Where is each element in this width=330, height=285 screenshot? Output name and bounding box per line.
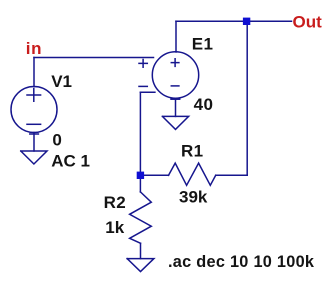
V1 circle body: [11, 87, 57, 133]
VCVS E1: [139, 52, 199, 99]
E1 bottom pin tick: [171, 98, 180, 100]
svg-text:40: 40: [194, 95, 214, 114]
E1 internal minus mark: [171, 85, 179, 87]
wire: node in down to V1 top: [33, 58, 35, 87]
ground (below E1): [162, 116, 188, 129]
resistor R2 (vertical zigzag): [130, 192, 152, 243]
V1 bottom pin tick: [30, 133, 39, 135]
resistor R1 (horizontal zigzag): [169, 163, 216, 185]
svg-text:1k: 1k: [105, 218, 124, 237]
svg-text:Out: Out: [293, 13, 323, 32]
E1 internal plus mark: [171, 59, 179, 67]
wire: E1 control - down to feedback node: [139, 92, 141, 171]
svg-text:0: 0: [52, 131, 61, 150]
svg-text:39k: 39k: [179, 187, 208, 206]
E1 control minus mark: [139, 85, 147, 87]
wire: E1 top pin up to out rail: [175, 21, 177, 52]
E1 circle body: [152, 52, 198, 98]
ground (below R2): [127, 259, 154, 272]
wire: top rail E1 to Out node: [176, 20, 247, 22]
svg-text:V1: V1: [51, 72, 72, 91]
wire: right rail Out node down to R1: [246, 21, 248, 175]
junction node feedback (blue square): [137, 172, 144, 179]
svg-text:R1: R1: [181, 141, 204, 160]
wire: E1 bottom to ground: [175, 99, 177, 117]
wire: feedback node to R1 left lead: [144, 174, 169, 176]
svg-text:.ac dec 10 10 100k: .ac dec 10 10 100k: [168, 253, 315, 271]
ground (below V1): [21, 151, 47, 164]
junction node Out (blue square): [243, 18, 250, 25]
E1 control plus mark: [139, 60, 147, 68]
wire: Out node to label Out: [247, 20, 291, 22]
svg-text:R2: R2: [104, 193, 127, 212]
V1 minus mark: [27, 123, 41, 125]
svg-text:E1: E1: [192, 35, 214, 54]
wire: node in horizontal run to E1 + control pin: [34, 57, 154, 59]
E1 control - pin stub: [140, 91, 155, 93]
voltage source V1: [11, 87, 57, 135]
wire: V1 bottom to ground: [33, 133, 35, 152]
wire: R2 bottom to ground: [140, 243, 142, 258]
svg-text:AC 1: AC 1: [51, 151, 90, 170]
wire: feedback node down to R2: [139, 179, 141, 192]
wire: R1 right lead to right rail: [216, 174, 248, 176]
V1 plus mark: [27, 89, 41, 101]
svg-text:in: in: [26, 39, 42, 58]
